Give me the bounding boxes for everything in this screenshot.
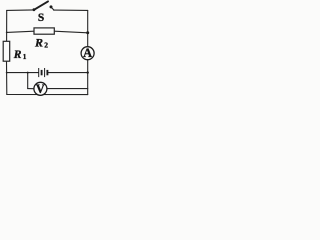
wire left rail lower (6, 61, 8, 94)
wire right rail lower (87, 60, 89, 95)
wire R2 rail left (7, 31, 35, 32)
junction node left-R2 (6, 32, 8, 34)
wire bottom rail (7, 94, 88, 96)
battery cell 2 short plate (46, 70, 48, 75)
svg-text:A: A (83, 46, 92, 60)
wire left rail upper (6, 10, 8, 41)
wire battery rail left (7, 72, 39, 74)
wire voltmeter branch right (47, 88, 88, 90)
battery cell 1 long plate (38, 68, 40, 77)
svg-text:V: V (36, 82, 45, 96)
svg-text:S: S (38, 12, 44, 24)
svg-text:1: 1 (23, 53, 27, 61)
ammeter A (81, 47, 94, 60)
switch S lever (34, 1, 48, 9)
svg-text:R: R (13, 49, 22, 61)
switch S right contact dot (50, 5, 53, 8)
wire R2 rail right (54, 31, 87, 33)
junction node left-battery (6, 72, 8, 74)
wire voltmeter branch vertical (27, 73, 29, 89)
voltmeter V (34, 82, 47, 95)
junction dot node right-battery (87, 71, 89, 73)
resistor R2 (34, 28, 54, 34)
svg-text:2: 2 (44, 40, 48, 49)
wire battery rail right (48, 72, 87, 74)
battery cell 2 long plate (44, 68, 46, 77)
wire voltmeter branch left (28, 88, 34, 90)
battery cell 1 short plate (41, 70, 43, 75)
svg-text:R: R (34, 36, 43, 50)
switch S left contact dot (33, 8, 36, 11)
resistor R1 (3, 41, 10, 61)
wire switch contact stub (51, 7, 54, 10)
wire right rail upper (87, 10, 89, 46)
wire top rail left segment (7, 9, 34, 12)
wire top rail right segment (54, 9, 88, 11)
junction dot node voltmeter-branch (27, 72, 29, 74)
junction dot node right-R2 (86, 31, 89, 34)
